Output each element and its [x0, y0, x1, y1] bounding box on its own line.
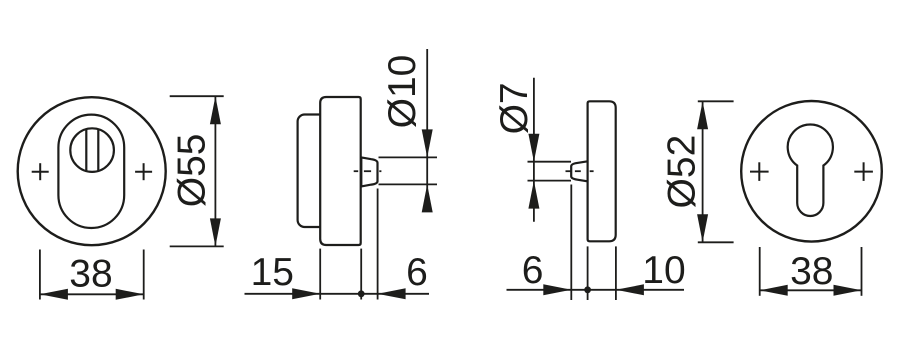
- view 3: centerline dashes: [566, 170, 594, 172]
- view 4: screw cross left: [750, 162, 769, 181]
- dimension 15/6 (view 2): extension line body right: [360, 249, 362, 300]
- view 2: main body: [320, 97, 361, 245]
- svg-text:15: 15: [251, 251, 294, 294]
- view 1: core circle: [70, 128, 114, 172]
- dimension 15/6 (view 2): dimension line: [245, 293, 430, 295]
- dimension Ø52: extension line bottom: [698, 241, 734, 243]
- view 1: slot line right: [97, 130, 99, 171]
- view 2: stem (cover knob): [361, 157, 377, 186]
- view 1: slot line left: [85, 130, 87, 171]
- dimension junction dot: [584, 286, 591, 293]
- view 4: screw cross right: [854, 162, 873, 181]
- svg-text:10: 10: [642, 249, 685, 292]
- svg-text:38: 38: [790, 250, 833, 293]
- svg-text:Ø7: Ø7: [493, 82, 536, 134]
- dimension 15/6 (view 2): extension line body left: [319, 249, 321, 300]
- dimension 6/10 (view 3): extension line body right: [615, 246, 617, 300]
- dimension 15 arrow right: [292, 288, 320, 299]
- dimension Ø7: dimension line: [533, 78, 535, 222]
- view 4: rosette outer circle: [741, 101, 882, 242]
- dimension 6/10 (view 3): dimension line: [507, 289, 685, 291]
- dimension 38 (view 4): arrow right: [834, 285, 862, 296]
- dimension Ø55: arrow up: [210, 96, 221, 124]
- dimension 6/10 (view 3): extension line stem tip: [570, 185, 572, 301]
- dimension 15/6 (view 2): extension line stem tip: [377, 189, 379, 300]
- dimension 38 (view 4): arrow left: [760, 285, 788, 296]
- dimension Ø7: arrow down (outside, above): [528, 134, 539, 162]
- svg-text:Ø10: Ø10: [381, 55, 424, 129]
- dimension 38 (view 4): dimension line: [760, 289, 862, 291]
- dimension Ø52: arrow up: [697, 101, 708, 129]
- dimension Ø55: extension line bottom: [170, 245, 224, 247]
- dimension Ø7: extension line bottom: [528, 180, 572, 182]
- svg-text:38: 38: [69, 253, 112, 296]
- svg-text:6: 6: [522, 249, 544, 292]
- view 1: screw cross left: [32, 163, 49, 180]
- dimension 6/10 (view 3): extension line body left: [587, 246, 589, 300]
- svg-text:Ø52: Ø52: [660, 135, 703, 209]
- dimension 38 (view 1): extension line left: [39, 250, 41, 300]
- dimension Ø55: arrow down: [210, 218, 221, 246]
- dimension 10 arrow left: [616, 284, 644, 295]
- view 1: rosette outer circle: [18, 97, 166, 245]
- view 3: main body: [588, 101, 616, 241]
- dimension Ø10: arrow up (outside, below): [422, 184, 433, 212]
- dimension Ø55: extension line top: [170, 95, 224, 97]
- dimension Ø10: extension line bottom: [379, 183, 438, 185]
- dimension Ø52: dimension line: [702, 101, 704, 242]
- dimension 38 (view 1): arrow left: [40, 289, 68, 300]
- dimension 38 (view 4): extension line left: [759, 247, 761, 296]
- dimension 6 arrow left: [378, 288, 406, 299]
- svg-text:Ø55: Ø55: [170, 134, 213, 208]
- dimension Ø10: arrow down (outside, above): [422, 129, 433, 157]
- dimension 38 (view 1): dimension line: [40, 293, 144, 295]
- dimension Ø55: dimension line: [214, 96, 216, 246]
- dimension 38 (view 1): extension line right: [143, 250, 145, 300]
- view 1: screw cross right: [135, 163, 152, 180]
- dimension 38 (view 4): extension line right: [861, 247, 863, 296]
- dimension Ø7: extension line top: [528, 161, 572, 163]
- dimension 6 arrow right: [543, 284, 571, 295]
- svg-text:6: 6: [406, 251, 428, 294]
- dimension Ø52: extension line top: [698, 100, 734, 102]
- dimension Ø7: arrow up (outside, below): [528, 181, 539, 209]
- dimension Ø52: arrow down: [697, 214, 708, 242]
- view 2: centerline dashes: [354, 170, 382, 172]
- dimension 38 (view 1): arrow right: [116, 289, 144, 300]
- view 4: euro profile keyhole: [788, 124, 833, 216]
- dimension Ø10: extension line top: [379, 156, 438, 158]
- view 1: cylinder cover oval: [58, 115, 124, 228]
- view 3: stem (cover knob, left): [571, 161, 587, 181]
- dimension junction dot: [358, 290, 365, 297]
- view 2: back plate: [298, 115, 332, 228]
- dimension Ø10: dimension line: [426, 49, 428, 212]
